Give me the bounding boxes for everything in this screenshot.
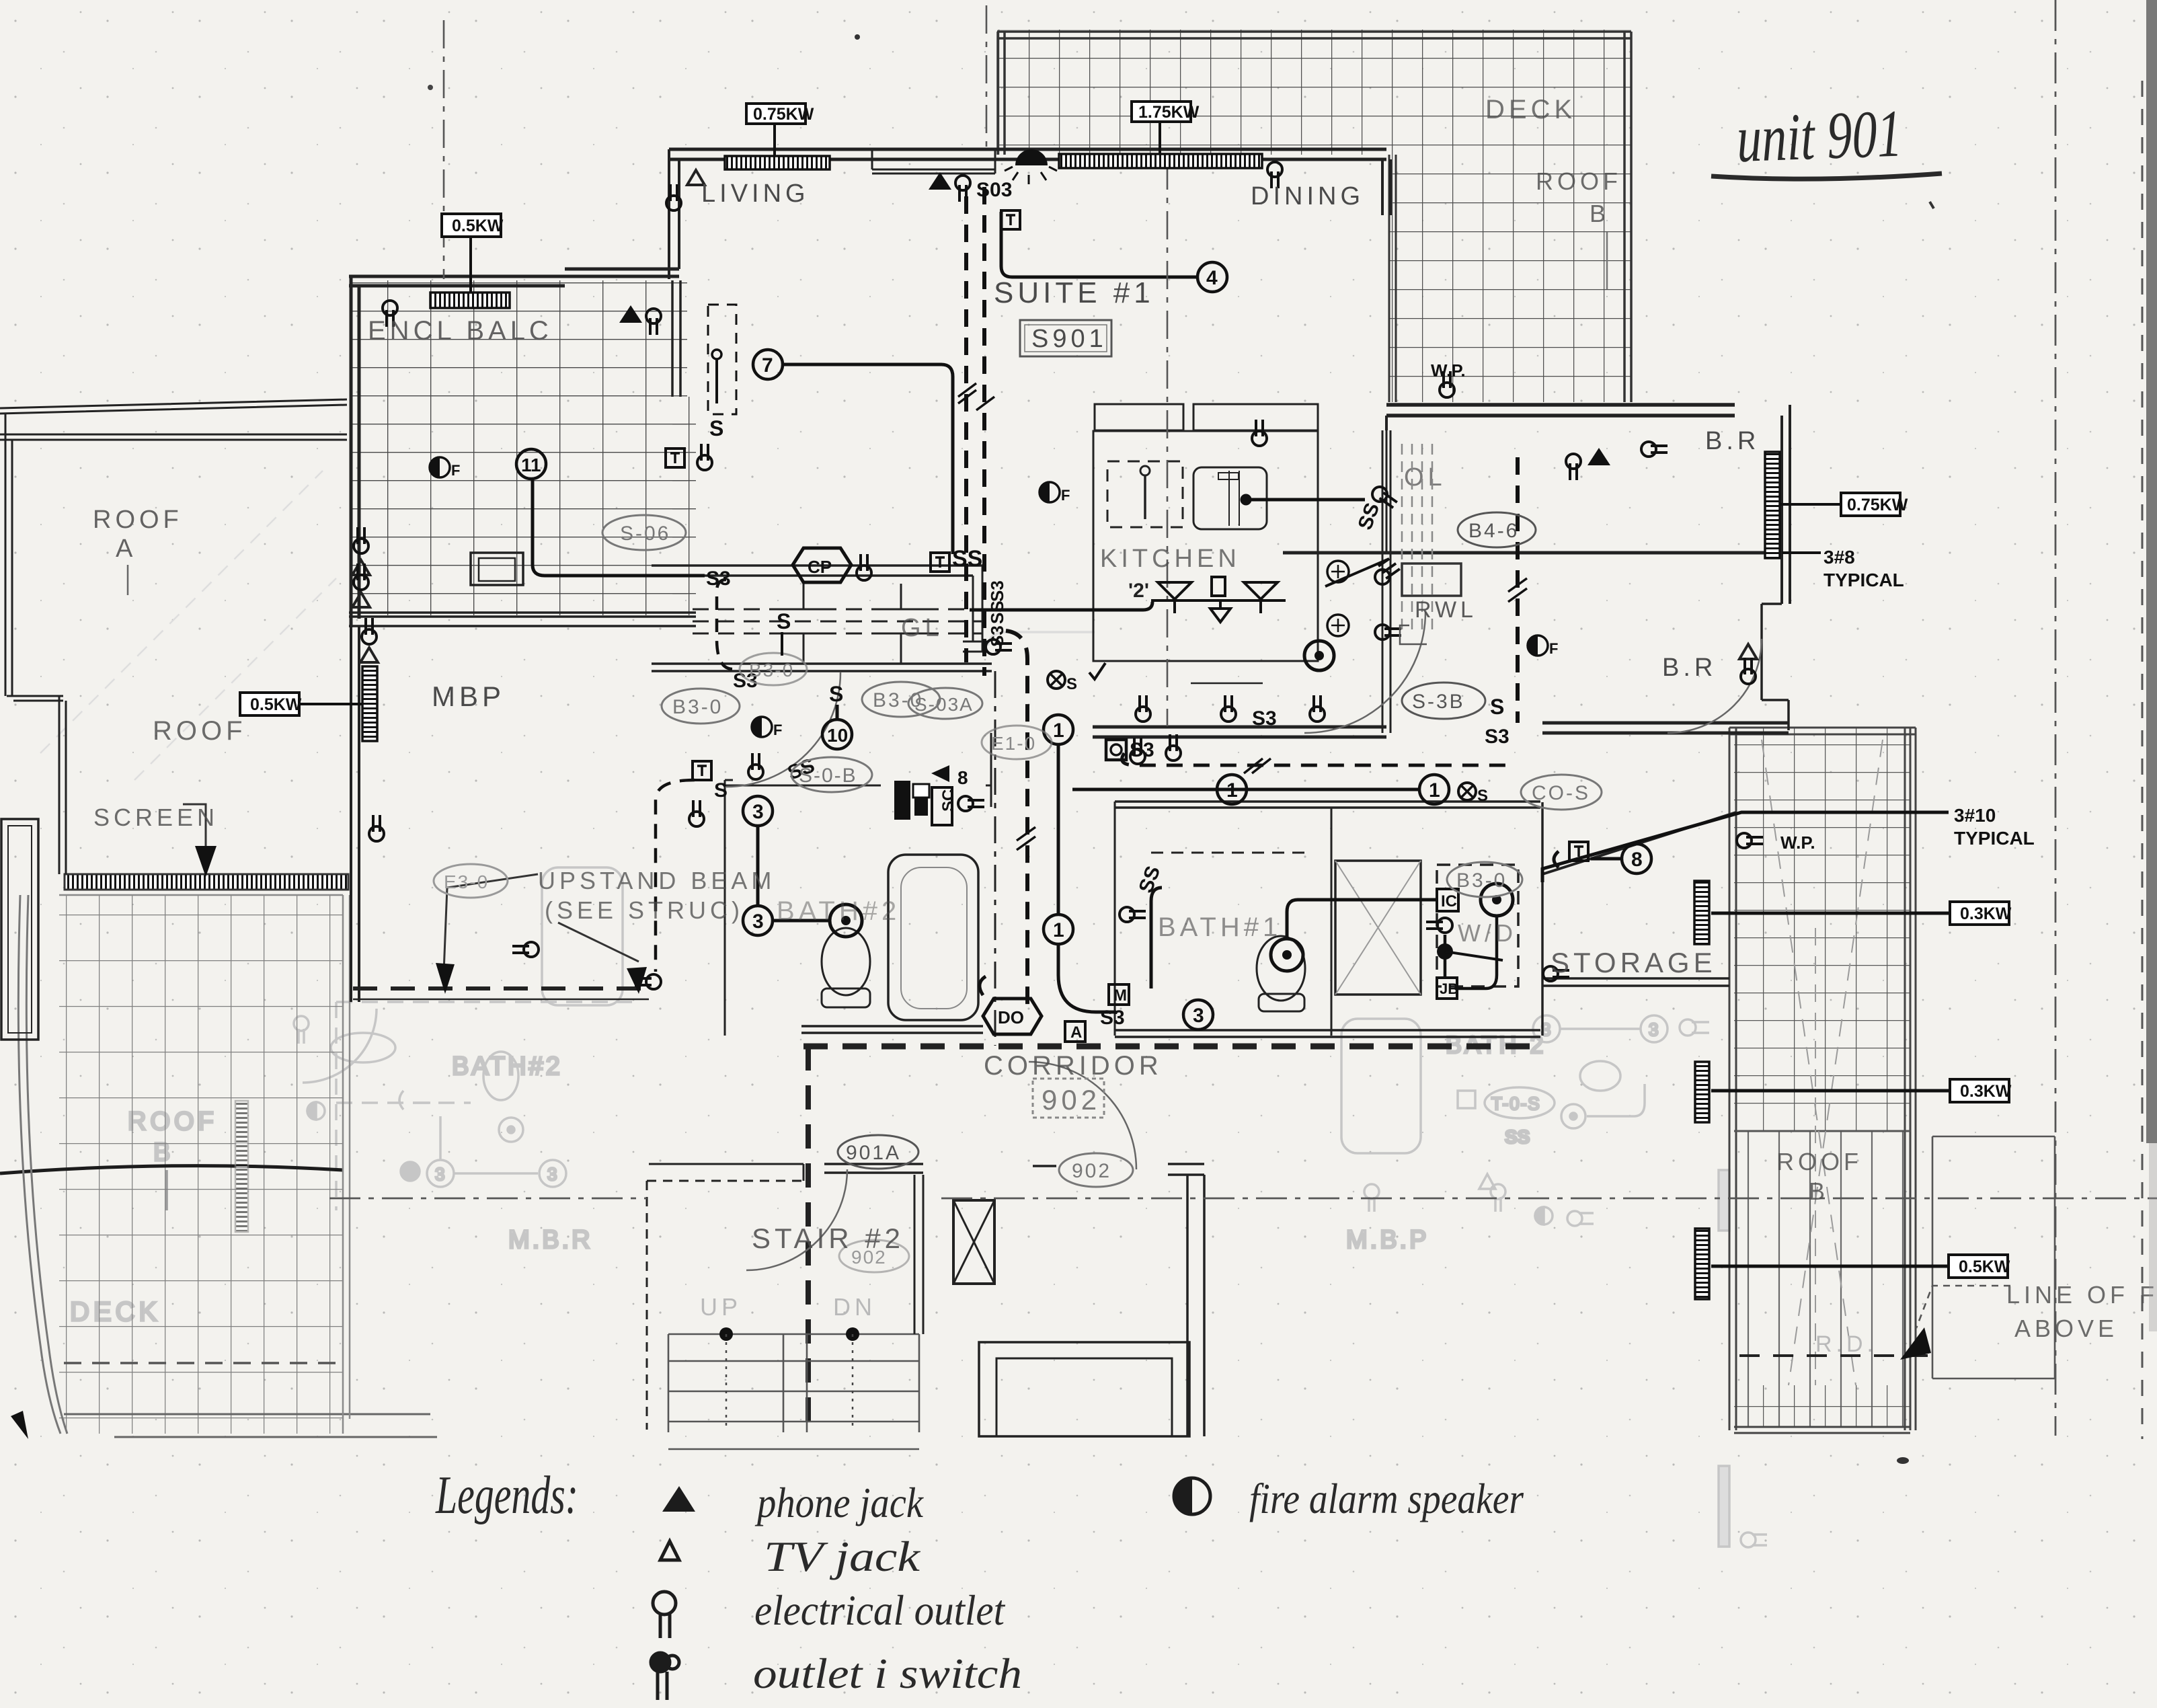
wall: bath1/shower divider <box>1331 808 1333 1036</box>
T box bath2 <box>693 761 711 780</box>
wire: heater H7 leader 0.3KW <box>1711 1089 1949 1093</box>
circle circuit 3 bath2 b <box>743 906 773 935</box>
CP hexagon <box>793 548 851 582</box>
wall: ENCL BALC top double wall <box>349 269 679 286</box>
elevator lobby nested boxes <box>979 1342 1189 1436</box>
wall: left jog above screen area <box>7 696 66 874</box>
svg-text:3#10: 3#10 <box>1954 805 1996 826</box>
wall: bath2 bottom wall <box>801 1026 983 1033</box>
svg-text:(SEE STRUC): (SEE STRUC) <box>545 896 744 924</box>
ghost oval <box>331 1033 395 1062</box>
vanity light circle-dot bath1 <box>1271 939 1303 971</box>
enclosed balcony tile grid <box>351 280 687 615</box>
dash-dot: long horizontal datum line <box>329 1198 2157 1200</box>
legend TV jack symbol <box>660 1541 679 1560</box>
svg-text:CO-S: CO-S <box>1532 782 1590 804</box>
wire: 10 to S <box>836 705 839 720</box>
ghost toilet <box>483 1052 518 1100</box>
check mark <box>1089 663 1105 679</box>
outlet kitchen top <box>1252 420 1267 446</box>
svg-text:8: 8 <box>1631 849 1643 871</box>
kitchen range hood funnels <box>1151 577 1286 622</box>
wall: DINING right wall segment <box>1382 159 1390 215</box>
svg-text:ROOF: ROOF <box>1776 1148 1862 1175</box>
svg-text:S901: S901 <box>1031 325 1107 353</box>
svg-text:SC: SC <box>939 789 957 812</box>
kw box 0.5KW balcony <box>442 214 504 237</box>
kw box 0.5KW right lower <box>1949 1255 2010 1278</box>
lower-left deck bottom lines <box>64 1414 437 1437</box>
WP outlet deck <box>1431 360 1466 397</box>
svg-text:S3: S3 <box>706 568 731 590</box>
wire: 3#10 long leader <box>1542 812 1949 882</box>
label UPSTAND BEAM <box>538 867 775 924</box>
wire: heater H4 leader <box>298 703 362 705</box>
svg-text:LINE OF FLOO: LINE OF FLOO <box>2006 1281 2157 1309</box>
svg-text:0.5KW: 0.5KW <box>1959 1257 2010 1276</box>
oval tag 902 stair <box>839 1240 909 1272</box>
TV jack + outlet B.R lower <box>1739 644 1757 684</box>
lower-left corner arrow <box>11 1411 28 1439</box>
S hook storage <box>1554 851 1559 867</box>
svg-text:ROOF: ROOF <box>153 716 247 746</box>
svg-text:S3: S3 <box>987 580 1007 602</box>
screen leader arrow <box>183 804 217 877</box>
outlet right of SC <box>958 796 984 811</box>
ghost wires circles 3-3 <box>399 1091 538 1173</box>
svg-text:0.3KW: 0.3KW <box>1960 904 2012 923</box>
wall: bedroom area left walls / kitchen right <box>1382 430 1390 733</box>
outlet beside CP <box>857 554 871 580</box>
elevator shaft with X brace <box>953 1200 994 1284</box>
right strip border left <box>1729 728 1736 1430</box>
heater 0.75KW above LIVING <box>725 156 830 169</box>
outlet B.R right top <box>1641 442 1668 457</box>
kw box 0.3KW lower <box>1950 1079 2012 1102</box>
svg-text:DECK: DECK <box>1485 95 1576 124</box>
stray mark top center <box>855 34 860 40</box>
svg-text:LIVING: LIVING <box>701 180 810 208</box>
wall: kitchen bottom wall <box>1093 727 1386 737</box>
svg-text:B4-6: B4-6 <box>1468 520 1519 542</box>
oval tag S-06 <box>602 515 686 550</box>
svg-text:S-03A: S-03A <box>914 694 974 715</box>
svg-text:JB: JB <box>1440 980 1458 997</box>
svg-text:B: B <box>1590 200 1610 227</box>
outlet in JB chain <box>1426 918 1452 933</box>
wall: closet GL top wall <box>652 566 982 576</box>
svg-text:SUITE #1: SUITE #1 <box>994 276 1154 309</box>
wall: closet GL bottom wall <box>652 664 992 671</box>
TV jack living left <box>666 170 705 210</box>
A box <box>1065 1021 1085 1042</box>
wall: DECK bottom wall right of DINING <box>1386 405 1735 416</box>
outlet kitchen row c <box>1310 695 1325 722</box>
wall: storage top diagonal wall <box>1542 812 1736 874</box>
closet GL mullions <box>780 584 925 664</box>
underline of unit 901 <box>1711 173 1942 179</box>
oval tag B3-0 closet left <box>740 653 807 685</box>
deck border left <box>998 32 1005 155</box>
wall: ROOF A left edge <box>5 414 12 696</box>
phone jack + outlet balcony <box>619 305 661 335</box>
ghost right sink <box>1580 1061 1620 1091</box>
wire: heater H2 leader <box>1159 120 1161 156</box>
svg-text:902: 902 <box>1072 1160 1111 1182</box>
wire: circuit 1 horizontal run <box>1072 788 1419 791</box>
legend fire alarm speaker symbol <box>1174 1478 1210 1514</box>
wire: dashed S3 branch at closet left <box>717 580 733 669</box>
W/D dashed box <box>1437 865 1518 986</box>
door arc: suite entry door at closet <box>726 672 840 787</box>
shower stall <box>1335 861 1421 995</box>
bath1 outlet left <box>1120 907 1146 922</box>
dark circle in JB chain <box>1437 943 1453 960</box>
JB box <box>1437 978 1458 999</box>
svg-text:1: 1 <box>1429 779 1440 802</box>
ghost bath2 of unit below: room dashed outline <box>336 1002 632 1210</box>
deck border right <box>1624 32 1631 402</box>
label 902 box <box>1033 1079 1104 1118</box>
DO hexagon <box>983 999 1042 1034</box>
svg-text:BATH#2: BATH#2 <box>777 896 900 926</box>
lower-left grid right border <box>343 895 350 1434</box>
svg-text:TYPICAL: TYPICAL <box>1954 828 2035 849</box>
svg-text:BATH#1: BATH#1 <box>1158 913 1282 942</box>
outlet S3 row under kitchen left <box>1130 738 1145 764</box>
svg-text:RWL: RWL <box>1415 597 1477 623</box>
hash marks on risers <box>958 383 994 410</box>
svg-text:Legends:: Legends: <box>435 1466 578 1525</box>
svg-text:3: 3 <box>752 801 764 823</box>
oval tag E3-0 mbr <box>434 864 508 898</box>
outlet kitchen row b <box>1221 695 1236 722</box>
label S901 box <box>1020 320 1111 356</box>
lower-left deck left curved border <box>18 895 61 1434</box>
TV jack + outlet MBR wall a <box>352 527 370 575</box>
ghost right circles 3 <box>1560 1027 1641 1030</box>
heater 0.5KW balcony <box>430 293 510 308</box>
svg-text:3: 3 <box>547 1164 557 1184</box>
closet right end wall <box>963 566 987 652</box>
circle circuit 1 d <box>1419 775 1449 804</box>
oval tag 902 door <box>1059 1153 1133 1187</box>
svg-text:S3: S3 <box>1100 1007 1125 1029</box>
wire: B4 dashed riser at B.R <box>1516 457 1520 723</box>
svg-text:1: 1 <box>1053 919 1064 941</box>
deck grid top band (DECK above LIVING/DINING) <box>997 30 1631 155</box>
ghost right outlets row <box>1364 1184 1379 1199</box>
wire: 3#8 leader text tick <box>1782 551 1821 554</box>
closet GL dashed shelf lines <box>693 609 982 633</box>
stray ink blob bottom right <box>1897 1457 1909 1464</box>
svg-text:7: 7 <box>762 354 773 377</box>
svg-text:BATH#2: BATH#2 <box>452 1052 563 1081</box>
svg-text:B3-0: B3-0 <box>1456 869 1507 892</box>
svg-text:11: 11 <box>521 455 541 475</box>
ghost sink circle-dot <box>499 1118 523 1142</box>
wall: 3#8 wire wall between bedrooms <box>1283 551 1782 555</box>
ghost right unit: BATH-2 mirrored <box>1341 1015 1767 1547</box>
wire: heater H6 leader 0.3KW <box>1711 912 1949 915</box>
wall: bath block top wall <box>1115 802 1540 808</box>
wire: circuit 1 to S3 low <box>1058 943 1116 1012</box>
svg-text:GL: GL <box>901 614 943 642</box>
kitchen counter inner lower edge <box>1191 683 1263 685</box>
svg-text:SS: SS <box>987 600 1007 624</box>
svg-text:E3-0: E3-0 <box>444 871 489 892</box>
T box balcony wall <box>666 449 684 467</box>
outlet balcony top <box>383 301 397 327</box>
oval tag B3-0 left <box>662 689 740 724</box>
kw box 0.75KW top <box>746 104 814 124</box>
outlet kitchen row a <box>1136 695 1150 722</box>
dash-dot: vertical center through dining <box>1167 161 1169 726</box>
kw box 0.3KW upper <box>1950 902 2012 925</box>
TV jack + outlet MBR wall c <box>360 618 378 662</box>
outlet S3 below closet right <box>986 639 1012 654</box>
svg-text:W/D: W/D <box>1458 919 1517 947</box>
ghost outlet top <box>294 1016 309 1031</box>
svg-text:SCREEN: SCREEN <box>93 804 219 831</box>
right strip top border <box>1729 728 1916 734</box>
door arc: kitchen to hall <box>1304 612 1425 733</box>
T box right of living riser <box>931 553 949 572</box>
wall: B.R lower bottom wall <box>1542 723 1789 733</box>
wire: bath2 3-3 run <box>756 826 760 906</box>
circle circuit 4 <box>1198 262 1227 292</box>
kitchen counter top edge boxes <box>1095 404 1183 430</box>
wall: ENCL BALC left wall <box>351 276 359 627</box>
wall: B.R top room left wall <box>1386 430 1388 553</box>
svg-text:S: S <box>829 682 843 706</box>
svg-text:DN: DN <box>833 1293 876 1321</box>
bath1 toilet <box>1257 936 1305 1001</box>
label 3#10 TYPICAL <box>1954 805 2035 849</box>
right strip bottom border <box>1734 1427 1910 1433</box>
svg-text:SS: SS <box>952 546 982 572</box>
wire: bath1 IC run <box>1287 900 1436 939</box>
screen hatched band <box>65 874 348 890</box>
fire speaker MBR closet <box>752 717 782 738</box>
wall: bath2 left wall <box>725 780 733 1036</box>
fire speaker balcony <box>430 457 460 479</box>
svg-text:R.D.: R.D. <box>1815 1331 1877 1357</box>
ghost right tub <box>1341 1019 1421 1153</box>
svg-text:phone jack: phone jack <box>754 1479 924 1526</box>
S3 square box at hall <box>1106 739 1154 761</box>
xcircle S hall a <box>1048 671 1077 693</box>
wall: LIVING/DINING top exterior double wall <box>669 149 1386 159</box>
outlet near T balcony <box>697 444 712 470</box>
svg-text:M.B.R: M.B.R <box>508 1226 593 1254</box>
oval tag B3-0 storage <box>1447 862 1522 897</box>
svg-text:IC: IC <box>1441 892 1457 910</box>
svg-text:B: B <box>1809 1177 1829 1205</box>
ghost right oval T-0-S <box>1485 1087 1555 1118</box>
svg-text:B3-0: B3-0 <box>672 696 723 718</box>
ghost fire speaker <box>307 1102 325 1120</box>
dash-dot: top-left vertical <box>443 20 445 279</box>
balcony grid right notch <box>672 397 696 615</box>
wall: balcony inner right wall upper <box>672 280 680 397</box>
wire: long dashed hall run <box>1122 753 1514 765</box>
lower-left deck dashed line <box>64 1362 343 1364</box>
S hook above DO <box>980 976 986 995</box>
outlet DINING right of heater <box>1267 162 1282 188</box>
wire: bath2 dashed branch left <box>656 780 695 972</box>
svg-text:ROOF: ROOF <box>93 506 183 534</box>
svg-text:901A: 901A <box>846 1142 901 1164</box>
wire: heater H8 leader 0.5KW <box>1711 1265 1947 1268</box>
bath1 dashed room box <box>1151 852 1304 854</box>
svg-text:1: 1 <box>1053 720 1064 742</box>
right roof strip verticals only middle (ROOF B) <box>1748 1131 1903 1427</box>
line of floor above leader <box>1916 1286 2010 1328</box>
heater 0.75KW B.R vertical <box>1765 452 1780 558</box>
oval tag E1-0 <box>982 726 1052 759</box>
svg-text:3: 3 <box>435 1164 444 1184</box>
dashed switch box right of balcony <box>708 305 736 440</box>
outlet at hall S3 box <box>1166 734 1181 761</box>
door arc: BR lower door <box>1668 639 1762 733</box>
svg-text:S: S <box>1490 695 1504 719</box>
wall: right of stair vertical <box>914 1175 923 1334</box>
outlet mid-left under beam <box>512 942 539 957</box>
S label closet <box>777 609 791 656</box>
svg-text:S3: S3 <box>1485 726 1509 748</box>
circle circuit 1 a <box>1044 715 1073 744</box>
svg-text:S-3B: S-3B <box>1412 691 1465 713</box>
wire: circuit 7 from switch to T <box>784 364 953 554</box>
wall: kitchen dashed island <box>1107 461 1183 527</box>
door arc: 902 door <box>1029 1062 1136 1169</box>
svg-text:BATH-2: BATH-2 <box>1446 1031 1546 1058</box>
phone jack + outlet at living top <box>929 172 1012 202</box>
svg-text:TYPICAL: TYPICAL <box>1823 570 1904 590</box>
wire: circuit 4 to living wall <box>1001 212 1198 277</box>
vanity light circle-dot bath2 <box>830 904 862 937</box>
svg-text:E1-0: E1-0 <box>991 733 1036 754</box>
wall: storage left wall <box>1541 802 1544 1036</box>
svg-text:TV jack: TV jack <box>764 1532 921 1580</box>
svg-text:DO: DO <box>998 1007 1024 1027</box>
ceiling light half dome at dining <box>1005 149 1057 184</box>
wall: LIVING left exterior wall <box>669 149 679 279</box>
right strip mid border line <box>1734 1130 1910 1132</box>
svg-text:KITCHEN: KITCHEN <box>1100 545 1241 573</box>
wall: B.R lower right wall <box>1762 604 1789 730</box>
wall: B.R(top) room outline <box>1386 405 1790 604</box>
svg-text:A: A <box>1070 1023 1082 1042</box>
svg-text:DINING: DINING <box>1251 182 1364 210</box>
wall: corridor right vertical <box>1187 1175 1204 1436</box>
svg-text:S: S <box>709 416 723 440</box>
wall: corridor bottom walls <box>824 1164 1204 1175</box>
wall: storage bottom wall <box>1542 978 1729 986</box>
wire: bath1 SS loop <box>1151 888 1162 988</box>
legend phone jack symbol <box>662 1486 695 1512</box>
ghost right F speaker <box>1535 1207 1553 1225</box>
wall: kitchen counter outline <box>1093 431 1318 661</box>
circle circuit 11 <box>516 449 546 479</box>
lower-left deck grid upper borders <box>59 894 343 896</box>
wire: DO dashed riser <box>1006 631 1027 1009</box>
wall: patio door notch top wall <box>872 149 995 173</box>
wall: center dash-dot wall below closet <box>994 671 996 1046</box>
wall: bath1 left wall <box>1114 802 1116 1036</box>
dash-dot: right page line <box>2055 0 2057 1436</box>
circle circuit 3 bath2 a <box>743 796 773 826</box>
wire: circuit 11 down-right to S3 <box>533 479 705 576</box>
bath2 outlet+SS <box>748 753 818 785</box>
legend outlet and switch symbol <box>651 1653 679 1700</box>
wall: small box protruding left of balcony <box>471 553 523 585</box>
kw box 0.5KW roof <box>240 693 302 715</box>
svg-text:1: 1 <box>1226 779 1238 802</box>
oval tag CO-S <box>1521 775 1602 810</box>
svg-text:unit 901: unit 901 <box>1735 95 1904 176</box>
lower-left dark arc line across grid <box>0 1166 343 1173</box>
svg-text:B.R: B.R <box>1662 654 1717 682</box>
bath2 S + outlet left <box>689 779 728 826</box>
circle circuit 1 c <box>1217 775 1247 804</box>
oval tag S-03A <box>908 688 982 719</box>
deck grid right block (DECK / ROOF B top-right) <box>1389 155 1631 402</box>
outlet MBR bottom <box>369 815 384 841</box>
wall: stair area outline <box>647 1181 803 1430</box>
svg-text:S-06: S-06 <box>620 522 670 545</box>
heater 0.5KW MBR vertical <box>362 666 377 741</box>
dash-dot: top vertical gridline left of living <box>986 5 988 151</box>
wire: dashed riser pair S03 (left) <box>964 196 968 662</box>
circle circuit 7 <box>753 350 783 379</box>
ghost right T box <box>1458 1091 1475 1108</box>
deck inner left border of right block <box>1389 155 1396 402</box>
wire: kitchen sink to SS <box>1246 498 1365 502</box>
svg-text:'2': '2' <box>1128 580 1149 602</box>
stair side rails <box>668 1334 919 1432</box>
ghost ROOF A diagonals <box>40 471 336 780</box>
wall: MBR left wall <box>351 626 359 1002</box>
door arc: 901A door <box>746 1169 847 1270</box>
ghost heater strips right <box>1719 1170 1729 1231</box>
upstand beam arrow left <box>436 963 455 994</box>
fire speaker kitchen <box>1040 482 1070 504</box>
circle circuit 8 <box>1622 844 1651 874</box>
svg-text:3: 3 <box>1649 1019 1658 1040</box>
svg-text:10: 10 <box>827 725 848 746</box>
fire speaker BR hall <box>1528 635 1558 657</box>
svg-text:0.75KW: 0.75KW <box>753 105 814 124</box>
kitchen sink double basin <box>1193 467 1267 529</box>
heater gray lower-left deck <box>235 1101 248 1232</box>
phone jack + outlet B.R top <box>1566 448 1610 480</box>
upstand beam leader lines <box>444 874 639 972</box>
right side arrow line of floor <box>1900 1327 1931 1360</box>
label 3#8 TYPICAL <box>1823 547 1904 590</box>
svg-text:3: 3 <box>752 910 764 933</box>
deck border top <box>997 32 1631 38</box>
svg-text:S-0-B: S-0-B <box>799 765 857 787</box>
svg-text:CP: CP <box>808 557 832 577</box>
wire: circuit 8 run <box>1591 857 1622 861</box>
svg-text:W.P.: W.P. <box>1780 832 1815 853</box>
T box storage S <box>1569 842 1588 861</box>
svg-text:outlet i switch: outlet i switch <box>753 1649 1022 1697</box>
triangle 8 label at panel <box>931 765 968 788</box>
label RWL + box <box>1400 564 1477 644</box>
